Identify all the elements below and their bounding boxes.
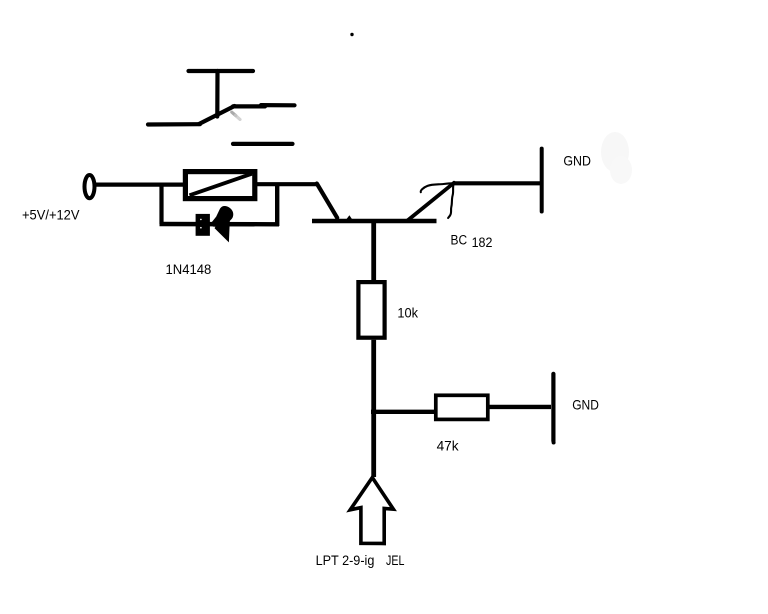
LPT input block arrow (350, 478, 393, 544)
switch S1 common vertical (215, 71, 219, 117)
smudge tail (236, 115, 241, 119)
svg-text:1N4148: 1N4148 (166, 261, 212, 277)
GND bar lower tip dot (552, 441, 556, 445)
transistor Q1 base bar (312, 219, 437, 223)
svg-text:47k: 47k (437, 437, 460, 453)
switch S1 left lead wire (148, 122, 200, 127)
resistor R1 10k (358, 282, 384, 338)
svg-text:JEL: JEL (386, 552, 405, 568)
svg-text:+5V/+12V: +5V/+12V (22, 207, 80, 223)
wire terminal to relay coil (95, 183, 184, 187)
GND bar top right (540, 149, 544, 212)
switch S1 right contact wire a (233, 104, 265, 108)
wire below 10k (371, 340, 376, 477)
diode loop right vertical (275, 184, 279, 226)
diode loop left vertical (159, 185, 163, 225)
collector wire to GND (453, 181, 540, 185)
node junction wire to 47k (371, 410, 435, 414)
diode loop bottom wire (160, 222, 280, 227)
diode D1 white notch (211, 227, 216, 235)
svg-text:182: 182 (472, 234, 493, 250)
stray dot (350, 33, 353, 36)
wire 47k to GND (490, 405, 552, 409)
wire relay coil to transistor base (257, 182, 317, 186)
svg-text:LPT 2-9-ig: LPT 2-9-ig (316, 552, 375, 568)
transistor Q1 emitter tick (346, 215, 353, 220)
diode D1 arrow body (210, 206, 233, 242)
relay coil K1 diagonal (190, 174, 253, 196)
svg-text:10k: 10k (397, 305, 419, 321)
svg-text:GND: GND (572, 396, 599, 412)
svg-text:BC: BC (451, 233, 468, 248)
svg-text:GND: GND (563, 153, 591, 169)
faint blob near top GND (601, 132, 629, 172)
switch S1 top bar (189, 69, 254, 73)
relay coil K1 (185, 172, 254, 199)
emitter wire down (371, 221, 376, 281)
wire diagonal down to base bar (317, 184, 337, 218)
smudge (eraser mark) (232, 112, 236, 115)
diode D1 cathode bar (196, 214, 210, 236)
transistor Q1 collector diagonal (408, 183, 455, 221)
squiggle wavy down (448, 184, 454, 218)
diode D1 cathode bar white specks (200, 219, 202, 221)
switch S1 lower contact stub (233, 142, 293, 146)
GND bar lower right (551, 374, 555, 441)
squiggle hook left (421, 183, 453, 192)
switch S1 blade (199, 106, 235, 124)
input terminal (ellipse) (85, 175, 95, 198)
resistor R2 47k (436, 395, 488, 419)
switch S1 right contact wire b (261, 103, 295, 107)
